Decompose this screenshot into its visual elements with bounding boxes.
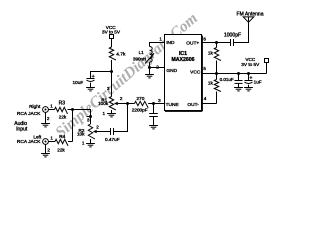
svg-text:390nH: 390nH	[133, 56, 146, 61]
svg-text:1: 1	[102, 111, 105, 116]
svg-text:2: 2	[120, 96, 123, 101]
svg-text:2: 2	[156, 65, 159, 70]
svg-text:5: 5	[203, 66, 206, 71]
svg-text:R3: R3	[59, 100, 66, 106]
svg-text:+: +	[92, 74, 95, 80]
svg-text:1: 1	[50, 103, 53, 108]
svg-text:1k: 1k	[208, 81, 214, 86]
svg-text:3: 3	[107, 86, 110, 91]
svg-text:0.47uF: 0.47uF	[105, 137, 120, 142]
svg-text:4.7k: 4.7k	[116, 52, 126, 58]
svg-text:0.01uF: 0.01uF	[220, 77, 234, 82]
svg-text:22k: 22k	[57, 148, 65, 153]
svg-text:R4: R4	[59, 134, 65, 140]
svg-text:1k: 1k	[208, 51, 214, 56]
svg-text:GND: GND	[166, 68, 177, 74]
svg-text:2: 2	[96, 124, 99, 129]
svg-text:3: 3	[158, 98, 161, 103]
svg-text:+: +	[249, 76, 252, 82]
svg-text:6: 6	[203, 36, 206, 41]
svg-text:3V to 5V: 3V to 5V	[102, 30, 121, 35]
svg-text:1000pF: 1000pF	[224, 33, 241, 39]
svg-text:RCA JACK: RCA JACK	[17, 139, 41, 145]
svg-text:L1: L1	[139, 50, 145, 55]
svg-text:RCA JACK: RCA JACK	[17, 111, 41, 117]
svg-text:1uF: 1uF	[254, 80, 262, 85]
svg-text:10k: 10k	[77, 132, 85, 137]
svg-text:2: 2	[47, 116, 50, 121]
svg-text:1: 1	[50, 135, 53, 140]
svg-text:1: 1	[82, 140, 85, 145]
svg-text:3: 3	[87, 118, 90, 123]
svg-text:2200pF: 2200pF	[132, 107, 148, 112]
svg-text:3V to 5V: 3V to 5V	[241, 62, 260, 67]
svg-text:100k: 100k	[98, 101, 109, 106]
svg-text:FM Antenna: FM Antenna	[237, 11, 264, 17]
svg-text:VCC: VCC	[190, 70, 201, 76]
svg-text:OUT+: OUT+	[186, 40, 199, 46]
svg-text:Left: Left	[33, 135, 42, 140]
svg-text:Right: Right	[29, 104, 41, 110]
svg-text:TUNE: TUNE	[166, 102, 179, 108]
svg-text:Input: Input	[16, 126, 28, 132]
svg-text:22k: 22k	[59, 115, 67, 120]
svg-text:2: 2	[47, 148, 50, 153]
svg-text:4: 4	[204, 96, 207, 101]
svg-text:MAX2606: MAX2606	[171, 57, 194, 63]
svg-text:10uF: 10uF	[73, 80, 84, 85]
svg-text:1: 1	[159, 36, 162, 41]
svg-text:OUT-: OUT-	[187, 102, 199, 108]
svg-text:IND: IND	[166, 40, 175, 46]
svg-text:270: 270	[136, 96, 144, 102]
